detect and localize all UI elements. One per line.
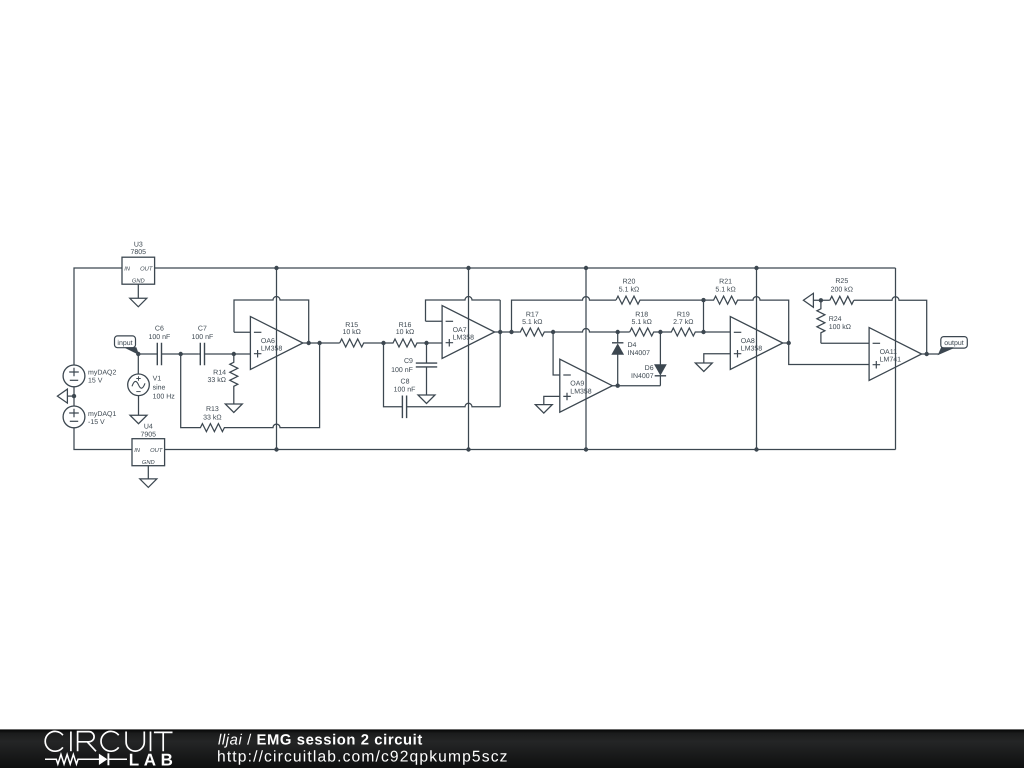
wire OA9 minus branch bbox=[553, 332, 560, 375]
footer bar bbox=[0, 729, 1024, 768]
svg-text:IN4007: IN4007 bbox=[628, 350, 651, 357]
CircuitLab logo letter I bbox=[70, 732, 72, 752]
regulator U4 7905 bbox=[132, 439, 165, 466]
node D4 bottom bbox=[616, 384, 620, 388]
svg-text:R17: R17 bbox=[526, 311, 539, 318]
wire R13 to OA6 output node bbox=[232, 343, 320, 428]
CircuitLab logo resistor zigzag bbox=[45, 755, 99, 765]
CircuitLab logo letter R bbox=[78, 732, 96, 752]
svg-text:OA7: OA7 bbox=[453, 327, 467, 334]
diode D4 IN4007 bbox=[617, 332, 619, 342]
node R25/R24 bbox=[819, 298, 823, 302]
svg-text:D6: D6 bbox=[645, 365, 654, 372]
svg-text:7905: 7905 bbox=[141, 431, 157, 438]
svg-text:100 nF: 100 nF bbox=[192, 334, 214, 341]
svg-text:LM358: LM358 bbox=[570, 388, 592, 395]
svg-text:R13: R13 bbox=[206, 406, 219, 413]
wire OA6 output to R15 bbox=[303, 342, 340, 344]
wire ground to R25 node bbox=[813, 299, 829, 301]
svg-text:100 nF: 100 nF bbox=[394, 387, 416, 394]
node bottom rail / rail A bbox=[274, 447, 278, 451]
resistor R25 200k bbox=[830, 296, 854, 304]
resistor R24 100k bbox=[817, 300, 825, 343]
svg-text:15 V: 15 V bbox=[88, 377, 103, 384]
wire bottom rail left segment (myDAQ1 to U4 IN) bbox=[74, 428, 132, 450]
wire C6 to C7 bbox=[162, 353, 199, 355]
svg-text:OA6: OA6 bbox=[261, 338, 275, 345]
wire R19 to OA8 minus bbox=[704, 331, 731, 333]
svg-text:7805: 7805 bbox=[131, 249, 147, 256]
node R18-R19 / D6 tap bbox=[658, 330, 662, 334]
svg-text:input: input bbox=[117, 339, 132, 347]
svg-text:200 kΩ: 200 kΩ bbox=[831, 286, 853, 294]
wire OA11 output bbox=[922, 353, 939, 355]
node R19/R21 vertical bbox=[701, 330, 705, 334]
svg-text:100 nF: 100 nF bbox=[149, 334, 171, 341]
label output box bbox=[941, 337, 968, 349]
node bottom rail / rail C bbox=[584, 447, 588, 451]
wire C8 to OA7 feedback bbox=[407, 403, 501, 406]
node bottom rail / rail D bbox=[754, 447, 758, 451]
wire R20 branch bbox=[512, 297, 617, 332]
capacitor C6 bbox=[156, 353, 158, 355]
node after C6 (R13 tap) bbox=[179, 352, 183, 356]
op-amp OA9 LM358 bbox=[560, 359, 613, 412]
wire top V+ rail bbox=[155, 267, 896, 269]
svg-text:OUT: OUT bbox=[150, 447, 163, 454]
svg-text:C6: C6 bbox=[155, 326, 164, 333]
svg-text:R19: R19 bbox=[677, 311, 690, 318]
resistor R21 5.1k bbox=[704, 296, 753, 304]
capacitor C8 bbox=[401, 406, 403, 408]
svg-text:myDAQ1: myDAQ1 bbox=[88, 411, 117, 418]
diode D6 IN4007 bbox=[659, 332, 661, 365]
svg-text:lljai / EMG session 2 circuit: lljai / EMG session 2 circuit bbox=[218, 732, 423, 748]
svg-text:OA11: OA11 bbox=[880, 349, 897, 356]
wire C8 branch left bbox=[384, 343, 403, 407]
svg-text:output: output bbox=[944, 340, 964, 347]
wire left rail (U3 IN down to myDAQ2) bbox=[74, 268, 122, 365]
svg-text:OUT: OUT bbox=[140, 266, 153, 273]
wire OA7 output to R17 bbox=[495, 331, 520, 333]
svg-text:GND: GND bbox=[142, 459, 155, 466]
ground below V1 bbox=[130, 415, 147, 424]
svg-text:LAB: LAB bbox=[129, 751, 178, 768]
svg-text:sine: sine bbox=[153, 384, 166, 392]
resistor R19 2.7k bbox=[660, 328, 703, 336]
CircuitLab logo letter C bbox=[101, 731, 119, 751]
svg-text:100 Hz: 100 Hz bbox=[153, 393, 176, 400]
node bottom rail / rail B bbox=[466, 447, 470, 451]
node R17 right / OA9 tap bbox=[551, 330, 555, 334]
resistor R20 5.1k bbox=[616, 296, 704, 304]
node top rail / rail B bbox=[466, 266, 470, 270]
svg-text:LM741: LM741 bbox=[880, 357, 902, 364]
node R16-OA7 (C9 tap) bbox=[424, 341, 428, 345]
wire power drop rail B (x=468.5) bbox=[468, 268, 470, 450]
svg-text:IN: IN bbox=[124, 267, 131, 273]
svg-text:C8: C8 bbox=[401, 379, 410, 386]
svg-text:R21: R21 bbox=[719, 278, 732, 285]
wire OA8 output to OA11 plus bbox=[789, 343, 869, 365]
svg-text:myDAQ2: myDAQ2 bbox=[88, 369, 117, 376]
svg-text:U3: U3 bbox=[134, 241, 143, 248]
svg-text:GND: GND bbox=[132, 278, 145, 285]
svg-text:100 nF: 100 nF bbox=[391, 367, 413, 374]
wire R20/R21 node vertical bbox=[703, 300, 705, 332]
ground at OA9 plus bbox=[535, 405, 552, 414]
wire power drop rail A (x=276.5) bbox=[276, 268, 278, 450]
svg-text:http://circuitlab.com/c92qpkum: http://circuitlab.com/c92qpkump5scz bbox=[217, 748, 509, 765]
svg-text:V1: V1 bbox=[153, 376, 162, 383]
CircuitLab logo letter T bbox=[154, 732, 173, 751]
svg-text:IN4007: IN4007 bbox=[631, 373, 654, 380]
svg-text:LM358: LM358 bbox=[453, 335, 475, 342]
ground at OA8 plus bbox=[695, 363, 712, 372]
svg-text:5.1 kΩ: 5.1 kΩ bbox=[631, 318, 651, 326]
resistor R18 5.1k bbox=[630, 328, 661, 336]
wire OA8 output bbox=[783, 342, 789, 344]
svg-text:R24: R24 bbox=[829, 316, 842, 323]
capacitor C9 bbox=[426, 343, 428, 363]
svg-text:LM358: LM358 bbox=[741, 346, 763, 353]
source V1 sine bbox=[128, 374, 150, 396]
resistor R13 33k bbox=[189, 424, 232, 432]
wire V1 stem bottom bbox=[138, 396, 140, 416]
node OA8 output/R21 bbox=[787, 341, 791, 345]
wire OA7 feedback right vertical bbox=[499, 300, 501, 407]
svg-text:2.7 kΩ: 2.7 kΩ bbox=[673, 318, 693, 326]
wire OA6 minus input bbox=[234, 331, 250, 333]
svg-text:IN: IN bbox=[134, 448, 141, 454]
wire OA8 plus to ground bbox=[704, 354, 731, 363]
svg-text:U4: U4 bbox=[144, 424, 153, 431]
voltage source myDAQ1 -15V bbox=[63, 406, 85, 428]
node myDAQ midpoint bbox=[72, 394, 76, 398]
svg-text:100 kΩ: 100 kΩ bbox=[829, 323, 851, 331]
CircuitLab logo diode bbox=[99, 754, 108, 765]
node OA6 output/feedback bbox=[307, 341, 311, 345]
CircuitLab logo letter I bbox=[150, 732, 152, 752]
node R20-R21 top bbox=[701, 298, 705, 302]
svg-text:33 kΩ: 33 kΩ bbox=[203, 413, 221, 421]
op-amp OA11 LM741 bbox=[869, 328, 922, 381]
svg-text:R20: R20 bbox=[623, 278, 636, 285]
ground left of R25 bbox=[803, 293, 813, 307]
wire right rail (top to bottom at x=895.5) bbox=[895, 268, 897, 450]
node top rail / rail A bbox=[274, 266, 278, 270]
output flag pointer bbox=[939, 348, 954, 355]
wire U4 GND stem bbox=[147, 466, 149, 479]
input flag pointer bbox=[126, 348, 139, 354]
svg-text:33 kΩ: 33 kΩ bbox=[208, 376, 226, 384]
wire R24 to OA11 minus bbox=[821, 342, 869, 344]
wire midpoint to ground bbox=[67, 395, 74, 397]
svg-text:5.1 kΩ: 5.1 kΩ bbox=[619, 286, 639, 294]
svg-text:R25: R25 bbox=[835, 278, 848, 285]
op-amp OA6 LM358 bbox=[250, 317, 303, 370]
wire OA7 minus input bbox=[426, 320, 443, 322]
resistor R16 10k bbox=[384, 339, 427, 347]
voltage source myDAQ2 15V bbox=[63, 365, 85, 387]
wire R13 branch bbox=[181, 354, 189, 428]
CircuitLab logo letter U bbox=[126, 732, 144, 752]
resistor R15 10k bbox=[340, 339, 384, 347]
wire power drop rail D (x=756.5) bbox=[756, 268, 758, 450]
wire input row (junction to C6) bbox=[138, 353, 157, 355]
node R17 left / R20 tap bbox=[509, 330, 513, 334]
wire bottom V- rail bbox=[165, 449, 896, 451]
node OA6 output/R13 bbox=[317, 341, 321, 345]
resistor R14 33k bbox=[230, 354, 238, 404]
svg-text:OA9: OA9 bbox=[570, 381, 584, 388]
wire R21 to OA8 output node bbox=[752, 297, 789, 343]
node R15-R16 (C8 tap) bbox=[381, 341, 385, 345]
node OA7 output/feedback bbox=[498, 330, 502, 334]
node input junction bbox=[136, 352, 140, 356]
wire R17 to R18 (over rail C) bbox=[553, 329, 630, 333]
wire U3 GND stem bbox=[137, 284, 139, 298]
ground below C9 bbox=[418, 395, 435, 404]
wire R16 to OA7 plus bbox=[427, 342, 443, 344]
svg-text:R18: R18 bbox=[635, 311, 648, 318]
wire V1 stem top bbox=[137, 354, 139, 374]
op-amp OA8 LM358 bbox=[730, 317, 783, 370]
svg-text:OA8: OA8 bbox=[741, 338, 755, 345]
wire between myDAQ2 and myDAQ1 bbox=[73, 387, 75, 406]
node top rail / rail D bbox=[754, 266, 758, 270]
node top rail / rail C bbox=[584, 266, 588, 270]
ground below U3 bbox=[130, 298, 147, 307]
svg-text:5.1 kΩ: 5.1 kΩ bbox=[522, 318, 542, 326]
wire OA9 plus to ground bbox=[544, 396, 560, 404]
node OA6 plus input (R14 tap) bbox=[232, 352, 236, 356]
label input box bbox=[115, 336, 136, 348]
resistor R17 5.1k bbox=[520, 328, 553, 336]
svg-text:-15 V: -15 V bbox=[88, 419, 105, 426]
capacitor C7 bbox=[198, 353, 200, 355]
ground below R14 bbox=[225, 404, 242, 413]
node OA11 output/R25 bbox=[925, 352, 929, 356]
wire R25 to output node bbox=[854, 297, 927, 354]
svg-text:5.1 kΩ: 5.1 kΩ bbox=[715, 286, 735, 294]
svg-text:LM358: LM358 bbox=[261, 346, 283, 353]
op-amp OA7 LM358 bbox=[442, 306, 495, 359]
wire OA6 feedback loop bbox=[234, 297, 309, 344]
CircuitLab logo letter C bbox=[45, 731, 63, 751]
wire OA9 output bbox=[612, 385, 660, 387]
svg-text:D4: D4 bbox=[628, 342, 637, 349]
ground below U4 bbox=[140, 479, 157, 488]
svg-text:C9: C9 bbox=[404, 358, 413, 365]
svg-text:10 kΩ: 10 kΩ bbox=[396, 328, 414, 336]
svg-text:10 kΩ: 10 kΩ bbox=[342, 328, 360, 336]
wire C7 to OA6 plus bbox=[207, 353, 251, 355]
regulator U3 7805 bbox=[122, 257, 155, 284]
node D4 top bbox=[616, 330, 620, 334]
svg-text:C7: C7 bbox=[198, 326, 207, 333]
wire power drop rail C (x=586) bbox=[585, 268, 587, 450]
wire OA7 feedback top bbox=[426, 297, 501, 322]
svg-text:R14: R14 bbox=[213, 370, 226, 377]
ground left of myDAQ sources bbox=[57, 389, 67, 403]
